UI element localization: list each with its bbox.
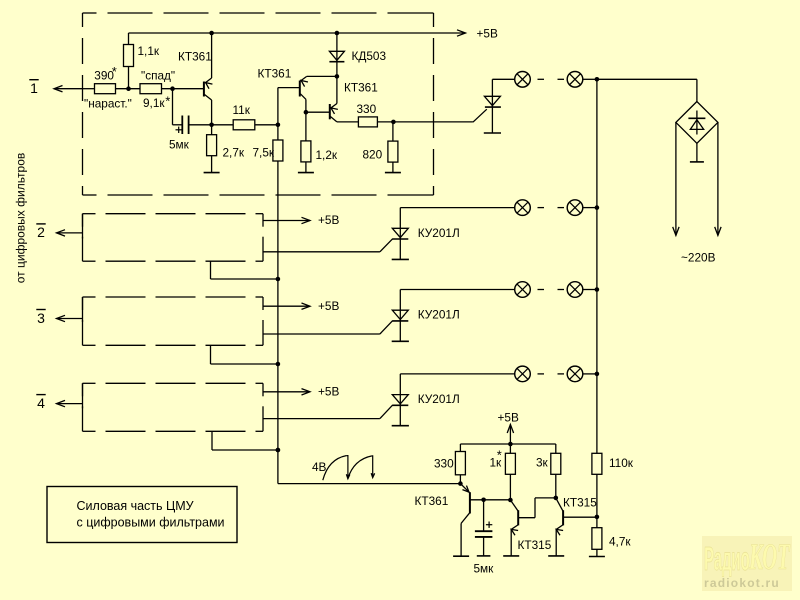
svg-text:4: 4 xyxy=(37,395,45,411)
svg-text:4В: 4В xyxy=(312,460,327,474)
svg-text:Силовая часть ЦМУ: Силовая часть ЦМУ xyxy=(77,499,194,513)
svg-text:5мк: 5мк xyxy=(474,562,495,576)
svg-text:7,5к: 7,5к xyxy=(253,146,275,160)
svg-text:330: 330 xyxy=(357,102,377,116)
svg-text:330: 330 xyxy=(434,456,454,470)
svg-text:КТ315: КТ315 xyxy=(518,538,552,552)
svg-text:3к: 3к xyxy=(536,456,549,470)
svg-text:+5В: +5В xyxy=(498,411,519,425)
svg-text:1: 1 xyxy=(30,80,38,96)
svg-text:КУ201Л: КУ201Л xyxy=(418,308,460,322)
svg-text:110к: 110к xyxy=(609,456,634,470)
svg-text:820: 820 xyxy=(363,148,383,162)
svg-text:+5В: +5В xyxy=(318,299,339,313)
svg-text:2,7к: 2,7к xyxy=(223,146,245,160)
svg-text:4,7к: 4,7к xyxy=(609,535,631,549)
svg-text:Радио: Радио xyxy=(704,542,750,578)
svg-text:2: 2 xyxy=(37,224,45,240)
svg-text:от цифровых фильтров: от цифровых фильтров xyxy=(14,153,28,283)
svg-text:~220В: ~220В xyxy=(681,250,716,264)
svg-text:КОТ: КОТ xyxy=(748,537,791,578)
svg-text:9,1к: 9,1к xyxy=(143,96,165,110)
svg-text:+5В: +5В xyxy=(477,27,498,41)
svg-text:*: * xyxy=(165,93,170,108)
svg-text:КТ361: КТ361 xyxy=(258,67,292,81)
svg-text:КУ201Л: КУ201Л xyxy=(418,226,460,240)
svg-text:radiokot.ru: radiokot.ru xyxy=(704,576,780,590)
svg-text:КТ361: КТ361 xyxy=(415,494,449,508)
svg-text:3: 3 xyxy=(37,310,45,326)
svg-text:с цифровыми фильтрами: с цифровыми фильтрами xyxy=(77,516,225,530)
svg-text:КД503: КД503 xyxy=(352,49,387,63)
svg-text:КТ315: КТ315 xyxy=(563,496,597,510)
svg-text:КТ361: КТ361 xyxy=(178,50,212,64)
svg-text:+5В: +5В xyxy=(318,213,339,227)
svg-text:*: * xyxy=(497,448,502,463)
svg-text:КУ201Л: КУ201Л xyxy=(418,392,460,406)
svg-text:11к: 11к xyxy=(233,103,251,117)
svg-text:+5В: +5В xyxy=(318,385,339,399)
svg-text:"спад": "спад" xyxy=(141,69,175,83)
svg-text:*: * xyxy=(112,64,117,79)
svg-text:5мк: 5мк xyxy=(169,138,190,152)
svg-text:КТ361: КТ361 xyxy=(344,80,378,94)
svg-text:1,2к: 1,2к xyxy=(316,148,338,162)
svg-text:1,1к: 1,1к xyxy=(138,44,160,58)
svg-text:"нараст.": "нараст." xyxy=(84,96,132,110)
